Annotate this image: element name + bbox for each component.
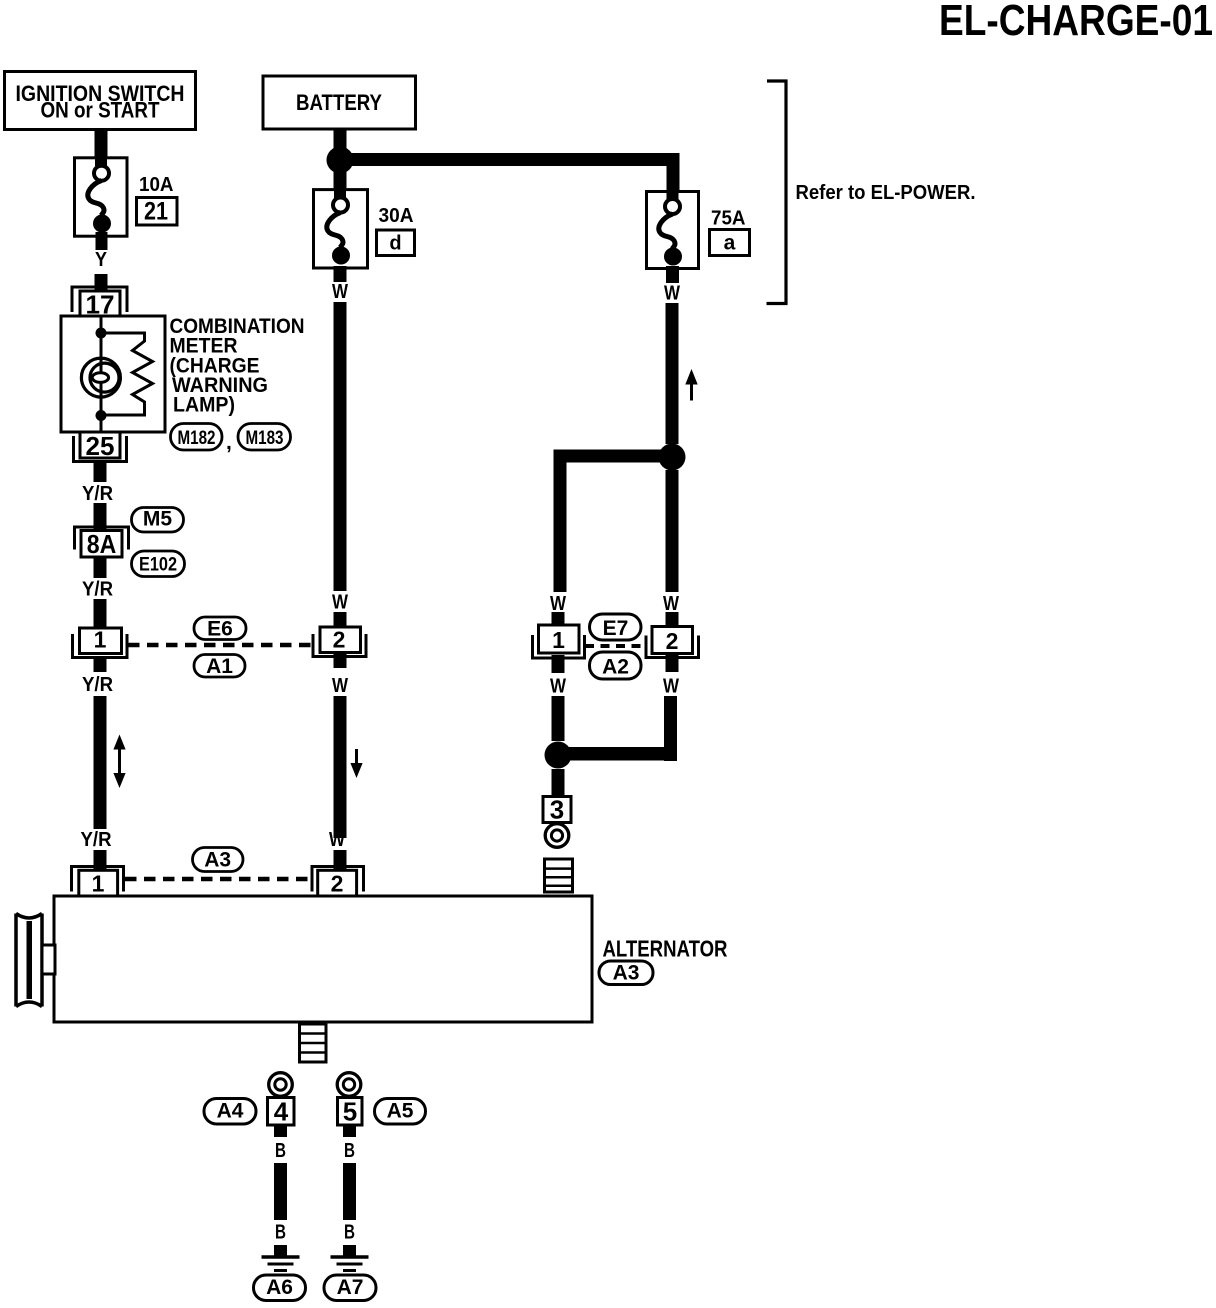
svg-text:Y/R: Y/R [82, 483, 114, 505]
connector 17 [72, 287, 127, 320]
ground left [262, 1257, 300, 1271]
svg-text:A6: A6 [266, 1276, 293, 1299]
svg-text:BATTERY: BATTERY [296, 90, 382, 115]
fuse number box 21 [137, 198, 178, 226]
connector A2 oval [590, 652, 642, 679]
dashed connector joint line E6/A1 [128, 643, 312, 648]
meter internal wire [100, 316, 103, 432]
svg-text:ALTERNATOR: ALTERNATOR [603, 936, 728, 962]
svg-text:Y: Y [95, 249, 108, 271]
svg-text:21: 21 [144, 198, 168, 226]
svg-text:W: W [332, 592, 348, 614]
arrow down battery column [350, 749, 362, 778]
wire below fuse F1 [96, 232, 108, 250]
wire right branch down from junction [666, 470, 679, 592]
svg-text:2: 2 [333, 627, 346, 653]
double headed arrow [113, 735, 125, 789]
wire to alternator pin 2 [334, 850, 347, 871]
stud terminal [545, 859, 573, 892]
connector A3 pin 2 [312, 867, 364, 897]
resistor (meter coil) [106, 333, 153, 415]
wire below pin2 E6 [334, 653, 347, 669]
wire battery column long [334, 302, 347, 591]
svg-text:Y/R: Y/R [82, 674, 114, 696]
fuse F3 75A [647, 192, 699, 269]
wire ignition to fuse F1 [95, 129, 108, 166]
wire corner down to fuse F3 [667, 153, 680, 191]
wire left branch down [554, 455, 567, 592]
svg-text:10A: 10A [139, 174, 174, 196]
pulley shaft [42, 945, 55, 974]
node bottom junction [96, 410, 107, 421]
wire below fuse F3 [666, 266, 679, 283]
wire battery to junction [334, 129, 347, 149]
junction node 75A column [659, 444, 686, 471]
svg-text:W: W [664, 283, 680, 305]
wire below 25 [94, 461, 107, 482]
combination meter caption [170, 315, 305, 417]
svg-text:A4: A4 [217, 1100, 244, 1123]
svg-text:M183: M183 [246, 428, 284, 449]
node top junction [96, 328, 107, 339]
connector A3 pin 1 [72, 867, 124, 897]
svg-text:W: W [329, 829, 345, 851]
fuse number box a [710, 230, 750, 256]
wire to ground left [274, 1245, 287, 1256]
terminal 4 box [268, 1097, 295, 1127]
svg-text:2: 2 [331, 871, 344, 897]
svg-text:EL-CHARGE-01: EL-CHARGE-01 [939, 0, 1213, 45]
connector A3 oval (component) [599, 961, 653, 985]
svg-text:1: 1 [552, 627, 565, 653]
connector A4 oval [204, 1099, 256, 1125]
wire below E7 pin 2 [666, 655, 679, 672]
charge warning lamp [81, 358, 120, 397]
wire below pin1 E6 [94, 656, 107, 672]
arrow up 75A column [685, 369, 697, 401]
ground right [331, 1257, 369, 1271]
svg-text:1: 1 [92, 871, 105, 897]
svg-text:5: 5 [343, 1097, 357, 1127]
connector A7 oval [324, 1275, 376, 1301]
connector M5 oval [132, 508, 184, 533]
pulley [16, 914, 42, 1007]
connector A5 oval [375, 1099, 426, 1125]
svg-text:30A: 30A [379, 205, 414, 227]
connector E6 oval [194, 617, 246, 641]
svg-text:A5: A5 [387, 1100, 414, 1123]
wire ground 5 [343, 1163, 356, 1220]
wire pin2 branch down [664, 696, 677, 761]
wire Y to connector 17 [95, 274, 108, 292]
svg-text:W: W [550, 593, 566, 615]
terminal 3 box [543, 795, 571, 825]
svg-text:W: W [332, 675, 348, 697]
svg-text:A7: A7 [337, 1276, 364, 1299]
connector E7/A2 pin 2 [646, 627, 699, 658]
svg-text:M182: M182 [178, 428, 216, 449]
wire below fuse F2 [334, 266, 347, 282]
svg-text:ON or START: ON or START [41, 98, 160, 123]
fuse number box d [377, 230, 415, 256]
wire to connector 8A [94, 503, 107, 531]
svg-text:W: W [550, 676, 566, 698]
svg-text:Y/R: Y/R [82, 579, 114, 601]
svg-text:3: 3 [550, 795, 564, 825]
dashed connector joint line A3 [125, 877, 311, 882]
wire horizontal junction to left branch [554, 450, 673, 463]
wire below terminal 4 [274, 1125, 287, 1137]
svg-text:W: W [663, 676, 679, 698]
svg-text:8A: 8A [87, 529, 117, 559]
junction node battery [327, 147, 354, 174]
dashed connector joint line E7/A2 [585, 644, 646, 648]
connector E6/A1 pin 2 [313, 627, 366, 657]
combination meter box [61, 316, 165, 432]
svg-text:LAMP): LAMP) [173, 394, 235, 417]
connector A6 oval [254, 1275, 306, 1301]
svg-text:d: d [389, 233, 401, 255]
connector 25 [74, 431, 127, 462]
svg-text:Y/R: Y/R [81, 829, 113, 851]
svg-text:E7: E7 [603, 617, 629, 640]
svg-text:Refer to EL-POWER.: Refer to EL-POWER. [796, 182, 976, 204]
connector 8A [75, 527, 129, 559]
wire to connector E7 pin 1 [552, 612, 565, 626]
wire junction to fuse F2 [334, 168, 347, 192]
terminal 5 box [338, 1097, 363, 1127]
alternator box [54, 896, 592, 1022]
svg-text:E102: E102 [139, 555, 177, 576]
wire horizontal lower joining branch [558, 747, 677, 761]
wire to ground right [343, 1245, 356, 1256]
connector E7 oval [590, 614, 642, 640]
wire below 8A [94, 557, 107, 578]
ring terminal 5 [337, 1073, 361, 1097]
svg-text:A3: A3 [204, 849, 231, 872]
svg-text:B: B [344, 1222, 355, 1244]
svg-text:M5: M5 [143, 508, 172, 531]
svg-text:4: 4 [274, 1097, 289, 1127]
fuse F2 30A [314, 190, 368, 268]
wire below terminal 5 [343, 1125, 356, 1137]
wire ground 4 [274, 1163, 287, 1220]
wire to connector E6 pin 2 [334, 612, 347, 628]
wire junction to terminal 3 [552, 769, 565, 797]
wire below E7 pin 1 [552, 655, 565, 673]
svg-text:25: 25 [86, 431, 115, 461]
svg-text:75A: 75A [711, 208, 746, 230]
alternator bottom stud connector [300, 1024, 327, 1062]
refer bracket [767, 80, 788, 305]
ignition switch box [5, 72, 196, 130]
svg-text:1: 1 [94, 627, 107, 653]
wire 75A column down [666, 303, 679, 444]
connector E7/A2 pin 1 [533, 625, 585, 658]
wire long left column [94, 696, 107, 829]
connector M182 oval [171, 424, 223, 451]
connector A3 oval (row) [193, 848, 244, 872]
svg-text:W: W [332, 281, 348, 303]
svg-text:E6: E6 [207, 618, 233, 641]
svg-text:a: a [724, 232, 736, 255]
wire battery column to alternator [334, 696, 347, 838]
wire to alternator pin 1 [94, 850, 107, 871]
wire horizontal battery feed to 75A [340, 153, 680, 166]
connector M183 oval [238, 424, 291, 451]
wire to connector E7 pin 2 [666, 612, 679, 627]
connector E6/A1 pin 1 [73, 627, 128, 658]
fuse F1 10A [75, 158, 128, 236]
svg-text:B: B [275, 1222, 286, 1244]
svg-text:2: 2 [666, 628, 679, 654]
ring terminal 4 [269, 1073, 293, 1097]
svg-text:A3: A3 [613, 962, 640, 985]
svg-text:B: B [344, 1140, 355, 1162]
connector E102 oval [132, 551, 185, 577]
connector A1 oval [194, 655, 245, 679]
wire to connector E6 pin 1 [94, 599, 107, 628]
svg-text:A1: A1 [206, 655, 233, 678]
svg-text:,: , [226, 431, 232, 454]
svg-text:W: W [663, 593, 679, 615]
svg-text:A2: A2 [602, 656, 629, 679]
ring terminal [545, 824, 569, 848]
wire pin1 branch to junction [552, 696, 565, 741]
junction node lower [545, 742, 572, 769]
svg-text:B: B [275, 1140, 286, 1162]
battery box [263, 76, 416, 129]
